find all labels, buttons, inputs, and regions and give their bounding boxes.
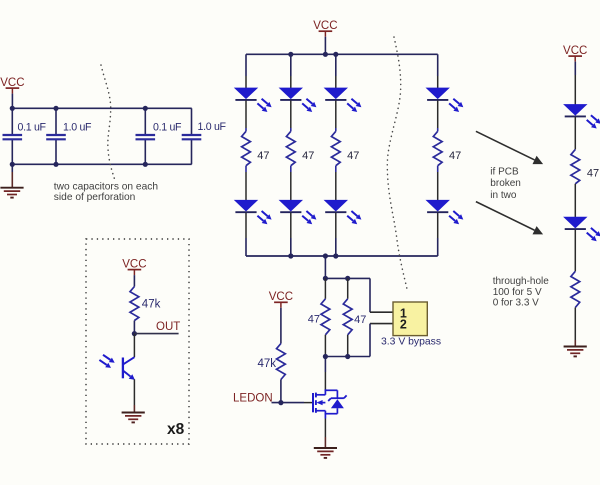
svg-text:broken: broken (490, 178, 521, 189)
svg-text:47: 47 (587, 167, 599, 179)
power symbol VCC (capacitor bank) (0, 77, 24, 94)
wire resistor to lower LED (column 1) (245, 166, 247, 172)
wire VCC to LED (574, 62, 576, 75)
wire LED column 3 segment to resistor (335, 101, 337, 129)
power symbol VCC (LEDON pull-up) (269, 291, 293, 308)
wire OUT net (134, 333, 178, 335)
note text: if PCB broken in two (490, 167, 521, 201)
wire right 47 resistor bottom lead (347, 335, 349, 357)
wire LED column 2 bottom segment (290, 213, 292, 238)
wire LED column 4 bottom segment (437, 213, 439, 238)
wire cap C4 leads (191, 108, 193, 135)
wire resistor to lower LED (574, 184, 576, 217)
wire VCC to resistor 47k (133, 275, 135, 286)
note text: through-hole resistor values (493, 276, 550, 309)
resistor 47 (bypass left) (321, 299, 330, 335)
svg-text:VCC: VCC (0, 77, 24, 89)
resistor 47 (broken column) (571, 149, 580, 183)
wire MOSFET source to ground (324, 419, 326, 438)
wire left 47 resistor bottom lead (324, 335, 326, 357)
wire LED column 4 top segment (437, 54, 439, 76)
wire VCC stub to top rail (11, 94, 13, 109)
wire resistor to ground (574, 308, 576, 341)
resistor 47 (column 3) (331, 131, 340, 165)
node bottom of bypass resistors (325, 356, 370, 358)
LED D4b (column 4 bottom) (427, 200, 464, 224)
capacitor C1 0.1 uF (3, 135, 23, 139)
wire to bypass jumper pin 1 (369, 278, 371, 312)
svg-text:VCC: VCC (269, 291, 293, 303)
light arrows into phototransistor (99, 355, 114, 368)
resistor 47 (column 1) (242, 131, 251, 165)
resistor 47k (LEDON pull-up) (277, 344, 286, 380)
node LEDON junction dot (278, 400, 283, 405)
svg-text:VCC: VCC (122, 258, 146, 270)
wire LED column 2 segment to resistor (290, 101, 292, 129)
LED D5a (broken column top) (564, 105, 600, 129)
svg-text:47: 47 (302, 150, 314, 162)
svg-text:in two: in two (490, 190, 517, 201)
transistor Q MOSFET with zener (313, 389, 347, 418)
svg-text:0 for 3.3 V: 0 for 3.3 V (493, 298, 539, 309)
LED D3b (column 3 bottom) (325, 200, 362, 224)
wire resistor to lower LED (column 4) (437, 166, 439, 172)
svg-text:3.3 V bypass: 3.3 V bypass (381, 336, 441, 347)
phototransistor Q (sensor) (123, 334, 135, 405)
wire left 47 resistor top lead (324, 278, 326, 298)
wire cap C2 leads (55, 108, 57, 135)
wire right 47 resistor top lead (347, 278, 349, 298)
wire LED to through-hole resistor (574, 230, 576, 272)
power symbol VCC (broken-off column) (563, 45, 587, 62)
resistor 47 (bypass right) (343, 299, 352, 335)
LED D5b (broken column bottom) (564, 217, 600, 241)
svg-text:LEDON: LEDON (233, 392, 273, 404)
LED D2a (column 2 top) (280, 88, 317, 112)
wire cap C1 leads (11, 108, 13, 135)
svg-text:through-hole: through-hole (493, 276, 550, 287)
ground (capacitor bank) (0, 188, 23, 198)
wire top rail of capacitor bank (12, 107, 191, 109)
power symbol VCC (LED array) (313, 20, 337, 37)
wire top rail of LED array (246, 53, 438, 55)
wire LED column 2 top segment (290, 54, 292, 76)
ground (MOSFET source) (314, 448, 337, 458)
svg-text:VCC: VCC (563, 45, 587, 57)
wire cap C3 leads (144, 108, 146, 135)
svg-text:1.0 uF: 1.0 uF (63, 121, 92, 133)
ground (broken-off column) (564, 347, 587, 357)
resistor through-hole (broken column) (571, 271, 580, 307)
wire LED column 3 top segment (335, 54, 337, 76)
svg-text:100 for 5 V: 100 for 5 V (493, 287, 542, 298)
svg-text:47k: 47k (257, 358, 276, 370)
wire 47k to LEDON node (280, 380, 282, 403)
wire resistor to OUT node (133, 321, 135, 334)
wire VCC to 47k (280, 308, 282, 344)
note text: two capacitors on each side of perforation (54, 182, 158, 203)
svg-text:2: 2 (400, 318, 407, 332)
capacitor C4 1.0 uF (182, 135, 202, 139)
LED D4a (column 4 top) (427, 88, 464, 112)
svg-text:two capacitors on each: two capacitors on each (54, 182, 158, 193)
wire LEDON net to gate (272, 402, 305, 404)
wire LED column 4 segment to resistor (437, 101, 439, 129)
LED D1a (column 1 top) (235, 88, 272, 112)
svg-text:47: 47 (257, 150, 269, 162)
node junction dots on capacitor rails (10, 106, 15, 111)
wire LED column 1 bottom segment (245, 213, 247, 238)
wire MOSFET drain (324, 357, 326, 373)
svg-text:47: 47 (449, 150, 461, 162)
wire resistor to lower LED (column 2) (290, 166, 292, 172)
x8 sensor block boundary (dotted box) (86, 239, 189, 444)
svg-text:x8: x8 (167, 421, 185, 438)
resistor 47k (sensor pull-up) (130, 287, 139, 321)
wire VCC feed to top rail (324, 37, 326, 55)
wire LED column 1 segment to resistor (245, 101, 247, 129)
jumper 3.3 V bypass (yellow box) (393, 302, 427, 336)
capacitor C2 1.0 uF (46, 135, 66, 139)
perforation line (capacitor bank) (101, 65, 116, 182)
ground (sensor cell) (122, 413, 145, 423)
resistor 47 (column 4) (433, 131, 442, 165)
LED D2b (column 2 bottom) (280, 200, 317, 224)
wire ground stub (sensor cell) (133, 405, 135, 413)
svg-text:0.1 uF: 0.1 uF (153, 121, 182, 133)
capacitor C3 0.1 uF (136, 135, 156, 139)
svg-text:side of perforation: side of perforation (54, 192, 136, 203)
wire ground stub (capacitor bank) (11, 164, 13, 172)
node junction dots on LED array rails (288, 52, 293, 57)
LED D3a (column 3 top) (325, 88, 362, 112)
wire bottom rail of LED array (246, 255, 438, 257)
wire LED column 1 top segment (245, 54, 247, 76)
svg-text:47k: 47k (142, 299, 161, 311)
svg-text:0.1 uF: 0.1 uF (18, 121, 47, 133)
wire LED to resistor (574, 117, 576, 149)
svg-text:if PCB: if PCB (490, 167, 519, 178)
wire resistor to lower LED (column 3) (335, 166, 337, 172)
wire from bypass jumper pin 2 (370, 323, 393, 325)
resistor 47 (column 2) (286, 131, 295, 165)
arrow annotation lower (if PCB broken) (476, 202, 535, 231)
svg-text:OUT: OUT (156, 321, 180, 333)
svg-text:1.0 uF: 1.0 uF (198, 121, 227, 133)
svg-text:VCC: VCC (313, 20, 337, 32)
LED D1b (column 1 bottom) (235, 200, 272, 224)
power symbol VCC (sensor cell) (122, 258, 146, 275)
node top of bypass resistors (325, 277, 370, 279)
svg-text:47: 47 (347, 150, 359, 162)
svg-text:47: 47 (354, 314, 366, 326)
wire bottom rail of capacitor bank (12, 163, 191, 165)
wire LED column 3 bottom segment (335, 213, 337, 238)
arrow annotation upper (if PCB broken) (476, 131, 535, 160)
wire bottom rail down-feed (324, 256, 326, 278)
perforation line (LED array) (387, 37, 407, 291)
svg-text:47: 47 (308, 313, 320, 325)
node OUT junction dot (132, 331, 137, 336)
